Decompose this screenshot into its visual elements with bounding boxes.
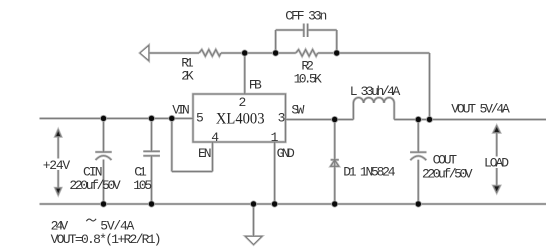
label tilde xyxy=(86,219,96,221)
junction dot halos xyxy=(100,50,433,208)
node COUT bottom xyxy=(416,201,421,206)
node CFF right xyxy=(334,50,339,55)
svg-text:SW: SW xyxy=(291,103,304,118)
svg-text:2K: 2K xyxy=(181,68,194,83)
svg-text:2: 2 xyxy=(239,95,247,110)
node C1 bottom xyxy=(149,201,154,206)
svg-text:3: 3 xyxy=(278,110,286,125)
svg-text:EN: EN xyxy=(198,146,212,161)
node EN tie xyxy=(169,116,174,121)
node CFF left xyxy=(273,50,278,55)
node feedback join xyxy=(427,117,432,122)
svg-text:XL4003: XL4003 xyxy=(216,111,265,128)
svg-text:VOUT=0.8*(1+R2/R1): VOUT=0.8*(1+R2/R1) xyxy=(51,232,162,247)
svg-text:L 33uh/4A: L 33uh/4A xyxy=(350,84,401,99)
svg-text:D1 1N5824: D1 1N5824 xyxy=(343,164,395,179)
white backs for labels over wires xyxy=(42,159,71,171)
svg-text:220uf/50V: 220uf/50V xyxy=(422,167,473,182)
node D1 top xyxy=(332,117,337,122)
node C1 top xyxy=(149,116,154,121)
svg-text:VIN: VIN xyxy=(172,103,190,118)
svg-text:CFF 33n: CFF 33n xyxy=(285,9,327,24)
node CIN top xyxy=(101,116,106,121)
node D1 bottom xyxy=(332,201,337,206)
svg-text:5: 5 xyxy=(196,110,204,125)
svg-text:4: 4 xyxy=(211,130,219,145)
svg-text:GND: GND xyxy=(277,146,295,161)
svg-text:105: 105 xyxy=(133,178,152,193)
node ground sym xyxy=(251,201,256,206)
svg-text:220uf/50V: 220uf/50V xyxy=(69,178,120,193)
node COUT top xyxy=(416,117,421,122)
svg-text:1: 1 xyxy=(271,130,279,145)
svg-text:10.5K: 10.5K xyxy=(294,72,322,87)
svg-text:VOUT 5V/4A: VOUT 5V/4A xyxy=(451,102,510,117)
node GND pin xyxy=(272,201,277,206)
svg-text:COUT: COUT xyxy=(433,153,458,168)
svg-text:FB: FB xyxy=(249,78,262,93)
svg-text:+24V: +24V xyxy=(43,158,71,173)
node CIN bottom xyxy=(101,201,106,206)
node FB tap xyxy=(242,50,247,55)
svg-text:LOAD: LOAD xyxy=(484,156,509,171)
